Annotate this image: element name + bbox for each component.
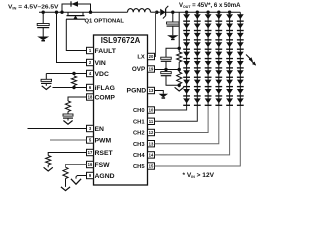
svg-text:CH4: CH4 xyxy=(133,153,145,159)
pin 15 CH5 xyxy=(148,163,155,169)
pin 2 VIN xyxy=(87,59,94,65)
capacitor COVP2 xyxy=(165,70,167,72)
pin 5 PWM xyxy=(87,137,94,143)
wire: VIN top rail xyxy=(39,11,128,13)
svg-text:Q1 OPTIONAL: Q1 OPTIONAL xyxy=(85,18,125,24)
svg-text:20: 20 xyxy=(149,54,154,59)
wire: CH4 pin to LED string 5 xyxy=(155,106,230,155)
ground RSET xyxy=(44,167,53,171)
LED string D5 (8 LEDs) xyxy=(228,11,231,14)
wire: PGND pin to ground xyxy=(155,91,164,94)
svg-text:17: 17 xyxy=(88,150,93,155)
svg-text:ISL97672A: ISL97672A xyxy=(101,36,141,45)
svg-text:COMP: COMP xyxy=(95,94,116,101)
IC U1 ISL97672A body xyxy=(94,35,148,185)
capacitor COUT with ground xyxy=(172,12,174,22)
ground FSW xyxy=(61,187,70,191)
pin 17 RSET xyxy=(87,149,94,155)
pin 14 CH4 xyxy=(148,152,155,158)
svg-text:FAULT: FAULT xyxy=(95,48,117,55)
resistor RCOMP compensation xyxy=(68,97,87,101)
resistor RFSW to ground xyxy=(66,165,87,168)
svg-text:15: 15 xyxy=(149,164,154,169)
wire: CH0 pin to LED string 1 xyxy=(155,106,187,110)
LED string D4 (8 LEDs) xyxy=(217,11,220,14)
svg-text:19: 19 xyxy=(149,67,154,72)
svg-text:PGND: PGND xyxy=(127,88,147,95)
wire: CH3 pin to LED string 4 xyxy=(155,106,219,144)
pin 3 EN xyxy=(87,125,94,131)
svg-text:10: 10 xyxy=(149,108,154,113)
wire: iFLAG pin 6 xyxy=(53,87,87,89)
svg-text:RSET: RSET xyxy=(95,150,114,157)
svg-text:CH1: CH1 xyxy=(133,120,145,126)
svg-text:VIN = 4.5V–26.5V: VIN = 4.5V–26.5V xyxy=(8,5,59,11)
svg-text:13: 13 xyxy=(149,141,154,146)
LED string D6 (8 LEDs) xyxy=(239,12,241,106)
pin 9 AGND xyxy=(87,172,94,178)
svg-text:VDC: VDC xyxy=(95,71,109,78)
resistor RSET to ground xyxy=(48,153,86,156)
LED string D1 (8 LEDs) xyxy=(185,11,188,14)
pin 19 OVP xyxy=(148,66,155,72)
wire: PWM input pin 5 xyxy=(50,139,87,141)
svg-text:VOUT = 45V*, 6 x 50mA: VOUT = 45V*, 6 x 50mA xyxy=(179,3,241,9)
LED string D3 (8 LEDs) xyxy=(206,11,209,14)
resistor ROVP2 lower divider xyxy=(178,62,180,72)
wire: LX pin riser to switch node xyxy=(155,11,158,14)
svg-text:13: 13 xyxy=(149,88,154,93)
wire: CH1 pin to LED string 2 xyxy=(155,106,198,121)
svg-text:LX: LX xyxy=(137,55,145,61)
svg-text:11: 11 xyxy=(149,119,154,124)
svg-text:EN: EN xyxy=(95,126,105,133)
wire: OVP pin 19 to divider tap xyxy=(155,69,180,71)
pin 16 FSW xyxy=(87,161,94,167)
capacitor CIN with junction dot and ground xyxy=(42,11,45,14)
ground AGND xyxy=(76,176,87,179)
capacitor CVDC with ground xyxy=(46,73,86,75)
ground COMP network xyxy=(63,121,72,125)
wire: CH2 pin to LED string 3 xyxy=(155,106,209,133)
wire: CH5 pin to LED string 6 xyxy=(155,106,241,166)
capacitor COVP1 feedforward xyxy=(166,48,179,57)
wire: diode cathode to VOUT node xyxy=(166,11,187,13)
svg-text:AGND: AGND xyxy=(95,173,115,180)
pin 6 iFLAG xyxy=(87,84,94,90)
svg-text:18: 18 xyxy=(88,95,93,100)
svg-text:14: 14 xyxy=(149,153,154,158)
diode D1 schottky rectifier xyxy=(160,9,165,16)
svg-text:12: 12 xyxy=(149,130,154,135)
svg-text:CH0: CH0 xyxy=(133,108,145,114)
svg-text:CH5: CH5 xyxy=(133,164,145,170)
transistor Q1 body diode xyxy=(60,11,63,14)
LED string D2 (8 LEDs) xyxy=(196,11,199,14)
wire: rail to VIN pin 2 xyxy=(55,11,58,14)
wire: VOUT rail over LED array xyxy=(187,11,241,13)
wire: Q1 gate to FAULT pin 1 xyxy=(66,19,86,50)
pin 20 LX xyxy=(148,53,155,59)
svg-text:iFLAG: iFLAG xyxy=(95,85,115,92)
resistor RFLAG pull-up xyxy=(71,76,76,86)
pin 13 PGND xyxy=(148,87,155,93)
pin 12 CH2 xyxy=(148,129,155,135)
capacitor CCOMP compensation xyxy=(67,112,69,115)
wire: inductor to diode anode xyxy=(151,11,161,13)
wire: EN input pin 3 xyxy=(28,128,87,130)
pin 18 COMP xyxy=(87,94,94,100)
pin 10 CH0 xyxy=(148,107,155,113)
svg-text:VIN: VIN xyxy=(95,60,106,67)
ground PGND xyxy=(159,94,169,98)
transistor Q1 PMOS switch xyxy=(67,12,69,15)
svg-text:CH2: CH2 xyxy=(133,131,145,137)
pin 11 CH1 xyxy=(148,118,155,124)
ground OVP divider xyxy=(175,87,184,91)
svg-text:* VIN > 12V: * VIN > 12V xyxy=(183,172,215,179)
LED emission arrows xyxy=(246,55,252,61)
svg-text:16: 16 xyxy=(88,162,93,167)
resistor ROVP1 upper divider xyxy=(178,12,180,52)
svg-text:OVP: OVP xyxy=(132,66,145,73)
svg-text:CH3: CH3 xyxy=(133,142,145,148)
pin 1 FAULT xyxy=(87,47,94,53)
svg-text:FSW: FSW xyxy=(95,162,111,169)
inductor L1 xyxy=(128,9,151,13)
svg-text:PWM: PWM xyxy=(95,137,112,144)
pin 13 CH3 xyxy=(148,141,155,147)
pin 4 VDC xyxy=(87,70,94,76)
